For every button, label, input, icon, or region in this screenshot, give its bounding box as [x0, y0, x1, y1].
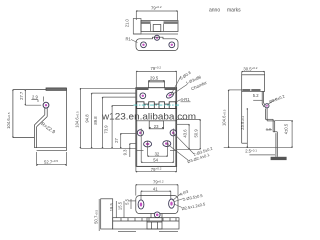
bv left box — [101, 199, 113, 229]
rv dim 4 right — [275, 120, 293, 122]
top view main bar — [141, 21, 178, 32]
lv dim 27.7 — [24, 90, 26, 106]
cv dim 79 bottom — [136, 166, 177, 171]
bv dim 41 — [141, 190, 171, 192]
bottom view — [136, 185, 178, 200]
stack v5 27 — [121, 133, 136, 148]
svg-text:21.0: 21.0 — [125, 18, 130, 27]
cv row2 circle right — [170, 130, 176, 136]
cv row3 ellipse left — [144, 141, 152, 147]
rv leader 0.5 — [268, 99, 278, 105]
svg-text:50.7+0.5: 50.7+0.5 — [93, 209, 98, 223]
lv z-link lower — [33, 125, 35, 148]
rv plate box — [242, 75, 265, 92]
cv dim 32 — [148, 141, 168, 157]
cv 23 box — [149, 121, 163, 129]
rv dims — [224, 90, 293, 155]
rv dim 5.2 — [253, 99, 263, 101]
stack v3 89.8 — [103, 97, 136, 148]
dimension arrowheads — [12, 10, 293, 192]
bv band — [113, 218, 179, 232]
bv dim 79 — [136, 184, 178, 186]
svg-text:2.9: 2.9 — [32, 95, 38, 100]
bv oval right — [169, 199, 175, 208]
lv dim 52.7 — [36, 152, 38, 166]
top view mid tab right line — [163, 24, 165, 32]
cv leader labels top right — [171, 76, 187, 95]
left dim stack — [80, 88, 143, 157]
lv dim 2.9 — [31, 99, 38, 101]
svg-text:marks: marks — [227, 8, 241, 14]
top view mid channel — [153, 25, 161, 32]
pin circle below top view — [155, 35, 160, 40]
svg-text:50.9: 50.9 — [194, 129, 199, 138]
right dim stack — [170, 119, 200, 150]
lv z-link slant — [34, 115, 44, 125]
svg-text:5.5: 5.5 — [124, 198, 129, 204]
right view — [242, 72, 287, 161]
top view left end box — [133, 19, 141, 35]
svg-text:anno: anno — [209, 8, 220, 14]
cv body — [136, 88, 177, 167]
svg-text:104.6+0.5: 104.6+0.5 — [222, 109, 227, 126]
stack v6 9.3 — [130, 144, 136, 157]
svg-text:73.9: 73.9 — [104, 125, 109, 134]
knuckle centerline cyan — [134, 104, 180, 106]
dim 43.6 — [177, 124, 190, 149]
svg-text:104.6+0.5: 104.6+0.5 — [75, 111, 80, 128]
rv plate hatch — [242, 89, 250, 91]
label 4-R1 — [177, 97, 191, 102]
rv dim 30.5 — [242, 72, 265, 75]
cv row1 circle — [140, 93, 146, 99]
right datum — [170, 150, 177, 152]
cv top thickness line — [136, 88, 149, 90]
bv left dims — [99, 199, 136, 231]
bv mid circle — [154, 212, 160, 218]
svg-text:41: 41 — [153, 186, 158, 191]
top view dim line 79 — [136, 11, 177, 20]
svg-text:5.2: 5.2 — [253, 93, 259, 98]
rv dim 1.0 jog — [266, 129, 272, 131]
svg-text:29.5: 29.5 — [150, 76, 159, 81]
rv left lower edge — [241, 91, 243, 143]
lv z-link upper — [44, 108, 46, 115]
stack v1 104.6 — [80, 88, 135, 148]
top view hatch band left — [141, 21, 150, 24]
bv oval left — [138, 200, 144, 209]
svg-text:4-R1: 4-R1 — [181, 97, 191, 102]
cv bottom right leaders — [167, 133, 194, 161]
svg-text:94.8: 94.8 — [84, 114, 89, 123]
rv pin circle — [265, 104, 269, 108]
lv top edge — [13, 89, 46, 91]
cv dim 54 — [141, 129, 174, 163]
cv row3 ellipse right — [163, 141, 171, 147]
left view — [13, 88, 67, 151]
top view hatch band right — [164, 21, 178, 24]
svg-text:19.5: 19.5 — [109, 202, 114, 211]
cv body inner left edge — [136, 88, 138, 167]
rv stack 104.6 — [229, 89, 242, 91]
cv fold line — [136, 120, 177, 122]
lv bottom edge of leaf — [13, 137, 35, 139]
svg-text:1.0: 1.0 — [266, 127, 271, 131]
cv row2 circle left — [137, 130, 143, 136]
rv dim 2.5 — [249, 154, 275, 156]
bv notch — [150, 214, 152, 218]
svg-text:27.7: 27.7 — [19, 91, 24, 100]
cv dim 79 top — [136, 71, 176, 87]
svg-text:9.3: 9.3 — [122, 149, 127, 155]
lv left edge — [12, 90, 14, 138]
datum baseline — [80, 147, 135, 149]
bv bottom extra lines — [118, 231, 136, 233]
lv right edge — [65, 88, 67, 151]
front plate — [136, 37, 178, 50]
top view lower double line — [133, 33, 178, 35]
cv body inner right edge — [175, 88, 177, 167]
svg-text:15.5: 15.5 — [117, 201, 122, 210]
front plate hole left — [141, 42, 147, 48]
stack v4 73.9 — [112, 106, 133, 149]
lv plate band — [46, 88, 66, 91]
stack v2 94.8 — [92, 93, 136, 148]
lv dims — [25, 90, 66, 166]
bv plate — [136, 196, 178, 218]
svg-text:54: 54 — [153, 157, 158, 162]
rv datum — [224, 147, 292, 149]
front plate hole right — [169, 42, 175, 48]
svg-text:89.8: 89.8 — [93, 116, 98, 125]
cv dim 29.5 — [149, 81, 165, 82]
svg-text:27: 27 — [114, 138, 119, 143]
rv bottom plate dark — [271, 157, 287, 160]
svg-text:23.5+0.2: 23.5+0.2 — [240, 115, 245, 129]
svg-text:R1: R1 — [126, 37, 132, 42]
svg-text:4±0.5: 4±0.5 — [283, 123, 288, 134]
label R1 with leader — [126, 37, 138, 43]
cv tab — [149, 82, 165, 88]
bv right leaders — [173, 194, 184, 208]
knuckle row — [136, 102, 177, 109]
top view mid tab left line — [150, 24, 152, 32]
dim 50.9 — [177, 119, 201, 149]
cv row1 ellipse pin — [165, 91, 174, 99]
bv band mid box — [147, 218, 162, 229]
svg-text:32: 32 — [155, 151, 160, 156]
rv dim 23.5 — [246, 108, 248, 147]
svg-text:104.6+0.5: 104.6+0.5 — [6, 112, 11, 129]
lv bottom plate — [34, 147, 66, 149]
lv pivot circle — [43, 102, 49, 108]
central view — [136, 66, 177, 167]
rv step mid — [264, 109, 266, 120]
rv leaf upper — [261, 91, 263, 104]
svg-text:43.6: 43.6 — [182, 129, 187, 138]
svg-text:23: 23 — [154, 124, 159, 129]
